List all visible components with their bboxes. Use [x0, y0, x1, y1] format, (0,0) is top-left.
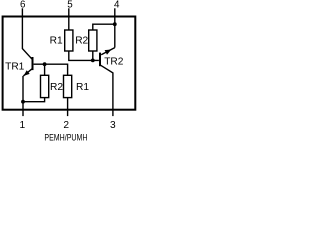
svg-text:2: 2	[63, 120, 69, 131]
svg-text:R1: R1	[76, 82, 89, 93]
arrow TR1 emitter	[24, 70, 30, 76]
wire: TR1 base to R1/R2 node	[34, 64, 68, 75]
junction: TR1 emitter / R2 bottom	[21, 100, 25, 104]
wire: R2 top to TR1 base node	[44, 64, 46, 75]
wire: R1 bottom to TR2 base	[69, 51, 99, 60]
resistor R1 (TR2)	[65, 30, 73, 51]
svg-text:R2: R2	[50, 82, 63, 93]
package outline	[3, 17, 136, 110]
transistor TR1 base bar	[32, 57, 34, 70]
resistor R2 (TR1)	[41, 75, 49, 97]
pin 1 lead	[22, 110, 24, 116]
wire: pin 6 to TR1 collector	[22, 16, 32, 59]
pin 5 lead	[68, 8, 70, 16]
junction: TR1 base / R2	[43, 62, 47, 66]
wire: emitter node to R2 bottom	[23, 98, 45, 102]
svg-text:TR2: TR2	[104, 57, 124, 68]
svg-text:R2: R2	[75, 35, 88, 46]
svg-text:PEMH/PUMH: PEMH/PUMH	[44, 131, 87, 142]
pin 2 lead	[67, 110, 69, 116]
resistor R1 (TR1)	[64, 75, 72, 97]
wire: R2 bottom to TR2 base node	[92, 51, 94, 60]
wire: pin 4 down to TR2 emitter	[114, 16, 116, 48]
junction: TR2 base / R2 bottom	[91, 59, 95, 63]
svg-text:6: 6	[20, 0, 26, 10]
pin 4 lead	[114, 8, 116, 16]
wire: TR1 emitter diagonal	[23, 68, 32, 76]
junction: pin 4 / R2 top	[113, 22, 117, 26]
svg-text:TR1: TR1	[5, 62, 25, 73]
pin 6 lead	[21, 8, 23, 16]
wire: TR2 emitter diagonal	[101, 48, 115, 55]
wire: TR1 emitter down to pin 1	[22, 76, 24, 110]
svg-text:1: 1	[19, 120, 25, 131]
wire: TR2 collector diagonal to pin 3	[101, 65, 113, 110]
svg-text:5: 5	[67, 0, 73, 10]
pin 3 lead	[112, 110, 114, 116]
svg-text:R1: R1	[50, 35, 63, 46]
svg-text:3: 3	[110, 120, 116, 131]
wire: pin 5 to R1 (TR2)	[68, 16, 70, 30]
wire: R1 bottom to pin 2	[67, 98, 69, 110]
resistor R2 (TR2)	[89, 30, 97, 51]
svg-text:4: 4	[114, 0, 120, 10]
arrow TR2 emitter	[105, 50, 112, 55]
wire: R2 top to pin 4 node	[93, 24, 115, 30]
transistor TR2 base bar	[99, 53, 101, 67]
